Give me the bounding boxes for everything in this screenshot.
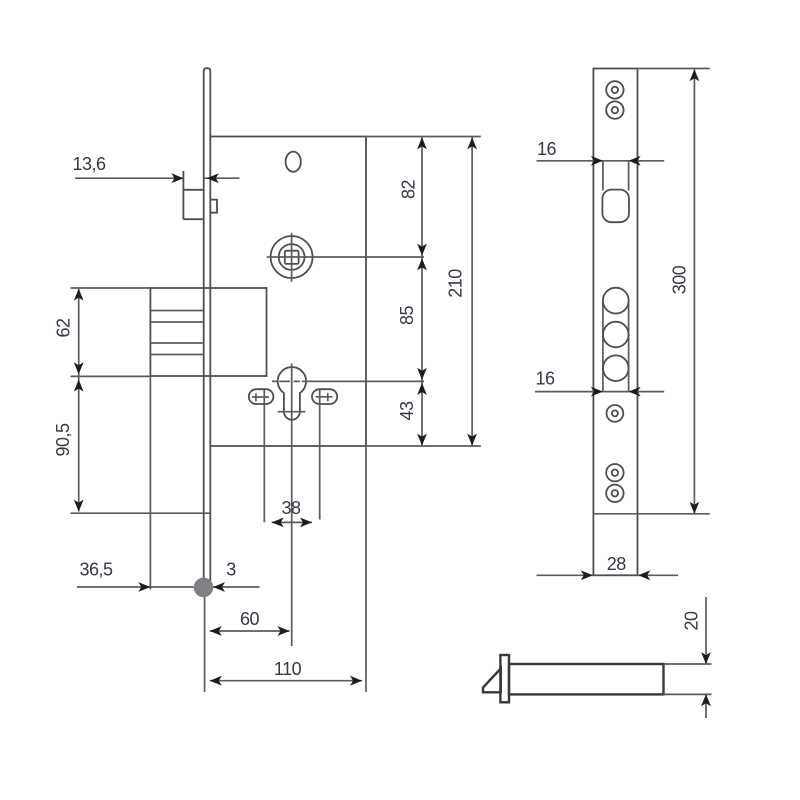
dim 38 line [272,521,312,523]
euro cylinder profile [278,367,306,420]
arrows 43 [417,383,427,395]
dim 28 line right [638,574,678,576]
dim 20 line upper [705,597,707,664]
latch slot hole [602,190,629,223]
extension line y288 [71,287,151,289]
faceplate cross-section [500,655,509,702]
deadbolt front view [150,288,266,376]
dim 90,5 arrows [74,380,84,392]
body top extension line [366,136,481,138]
dim 110 arrows [210,676,222,686]
inner line left upper [602,161,604,191]
svg-text:110: 110 [274,659,302,679]
faceplate top extension line [638,68,710,70]
deadbolt left edge extension down [149,376,151,590]
bevel triangle [483,669,501,693]
svg-text:36,5: 36,5 [79,559,113,579]
hub horizontal centerline (82/85 extension) [267,256,424,258]
latch bolt bottom edge [183,218,203,220]
latch bolt top edge [183,189,203,191]
bolt body side view [509,664,664,694]
arrows 85 [417,258,427,270]
svg-text:82: 82 [399,180,419,200]
channel line left [602,301,604,392]
dim 20 line lower [705,694,707,718]
left oval center tick [255,393,257,401]
dim 28 line left [537,574,593,576]
channel line right [628,301,630,392]
dim 3 line [213,586,260,588]
auxiliary bolt notch [210,200,217,213]
right oval fixing slot [312,389,337,404]
svg-text:85: 85 [397,306,417,326]
svg-text:20: 20 [682,611,702,631]
follower hub square hole [285,251,299,264]
svg-text:28: 28 [607,554,627,574]
left oval fixing slot [249,389,274,404]
right oval center tick [327,393,329,401]
faceplate front outline [593,69,637,576]
extension line y513.8 [593,513,709,515]
cylinder vertical centerline [291,363,293,646]
screw hole top 2 [606,101,623,118]
dim 62 arrows [74,289,84,301]
dim 36,5 line [77,586,194,588]
body right edge extension down [365,446,367,692]
screw hole mid [607,405,624,422]
screw hole top 1 [606,81,623,98]
dim 16 bottom line [535,391,664,393]
dim 13,6 arrows [171,173,183,183]
right oval crosshair [316,396,333,398]
extension line bolt bottom [664,693,712,695]
left oval crosshair [252,396,269,398]
svg-text:3: 3 [226,559,236,579]
deadbolt lamination line 2 [150,321,203,323]
dim 3 arrow [213,582,225,592]
svg-text:38: 38 [281,498,301,518]
deadbolt lamination line 4 [150,354,203,356]
cylinder horizontal centerline dashed part [272,380,304,382]
body bottom extension line [366,445,481,447]
keyhole oval top [286,152,301,172]
screw hole low 2 [606,485,623,502]
deadbolt lamination line 1 [150,310,203,312]
svg-text:210: 210 [446,269,466,298]
bolt hole 1 [603,288,629,314]
extension line y376 [71,375,151,377]
follower hub inner circle [279,244,305,270]
inner line right upper [628,161,630,191]
svg-text:16: 16 [535,369,555,389]
dim 36,5 arrow [138,582,150,592]
right oval vertical line + extension [319,389,321,520]
extension line y513 [71,512,210,514]
svg-text:90,5: 90,5 [53,423,73,457]
gray reference dot [194,578,214,598]
dim 38 arrows [272,518,284,528]
dim 62/90,5 vertical line [78,289,80,512]
dim 300 line [693,69,695,513]
faceplate lower extension line [204,586,206,692]
svg-text:16: 16 [537,139,557,159]
screw hole low 1 [606,464,623,481]
dim 13,6 line left [75,177,183,179]
bolt hole 2 [603,322,629,348]
svg-text:62: 62 [54,318,74,338]
dim 16 top line [537,160,665,162]
euro cylinder bottom tick [278,411,306,413]
bolt hole 3 [603,355,629,381]
svg-text:300: 300 [670,265,690,294]
extension line bolt top [664,663,712,665]
faceplate (edge view) left bar [204,68,211,584]
follower hub outer circle [271,236,313,278]
dim 60 line [210,630,290,632]
latch bolt front view left edge [182,171,184,219]
dim line 210 [471,137,473,445]
hub vertical centerline [291,233,293,282]
dim 110 line [210,680,362,682]
dim 13,6 line right [204,177,240,179]
left oval vertical line + extension [263,389,265,523]
svg-text:60: 60 [240,609,260,629]
svg-text:13,6: 13,6 [72,154,106,174]
dim line 82/85/43 [421,137,423,445]
lock body outline [210,137,366,447]
svg-text:43: 43 [397,401,417,421]
deadbolt lamination line 3 [150,342,203,344]
dim 60 arrows [210,626,222,636]
arrows 82 [417,137,427,149]
cylinder horizontal centerline (85/43 extension) [304,380,424,382]
